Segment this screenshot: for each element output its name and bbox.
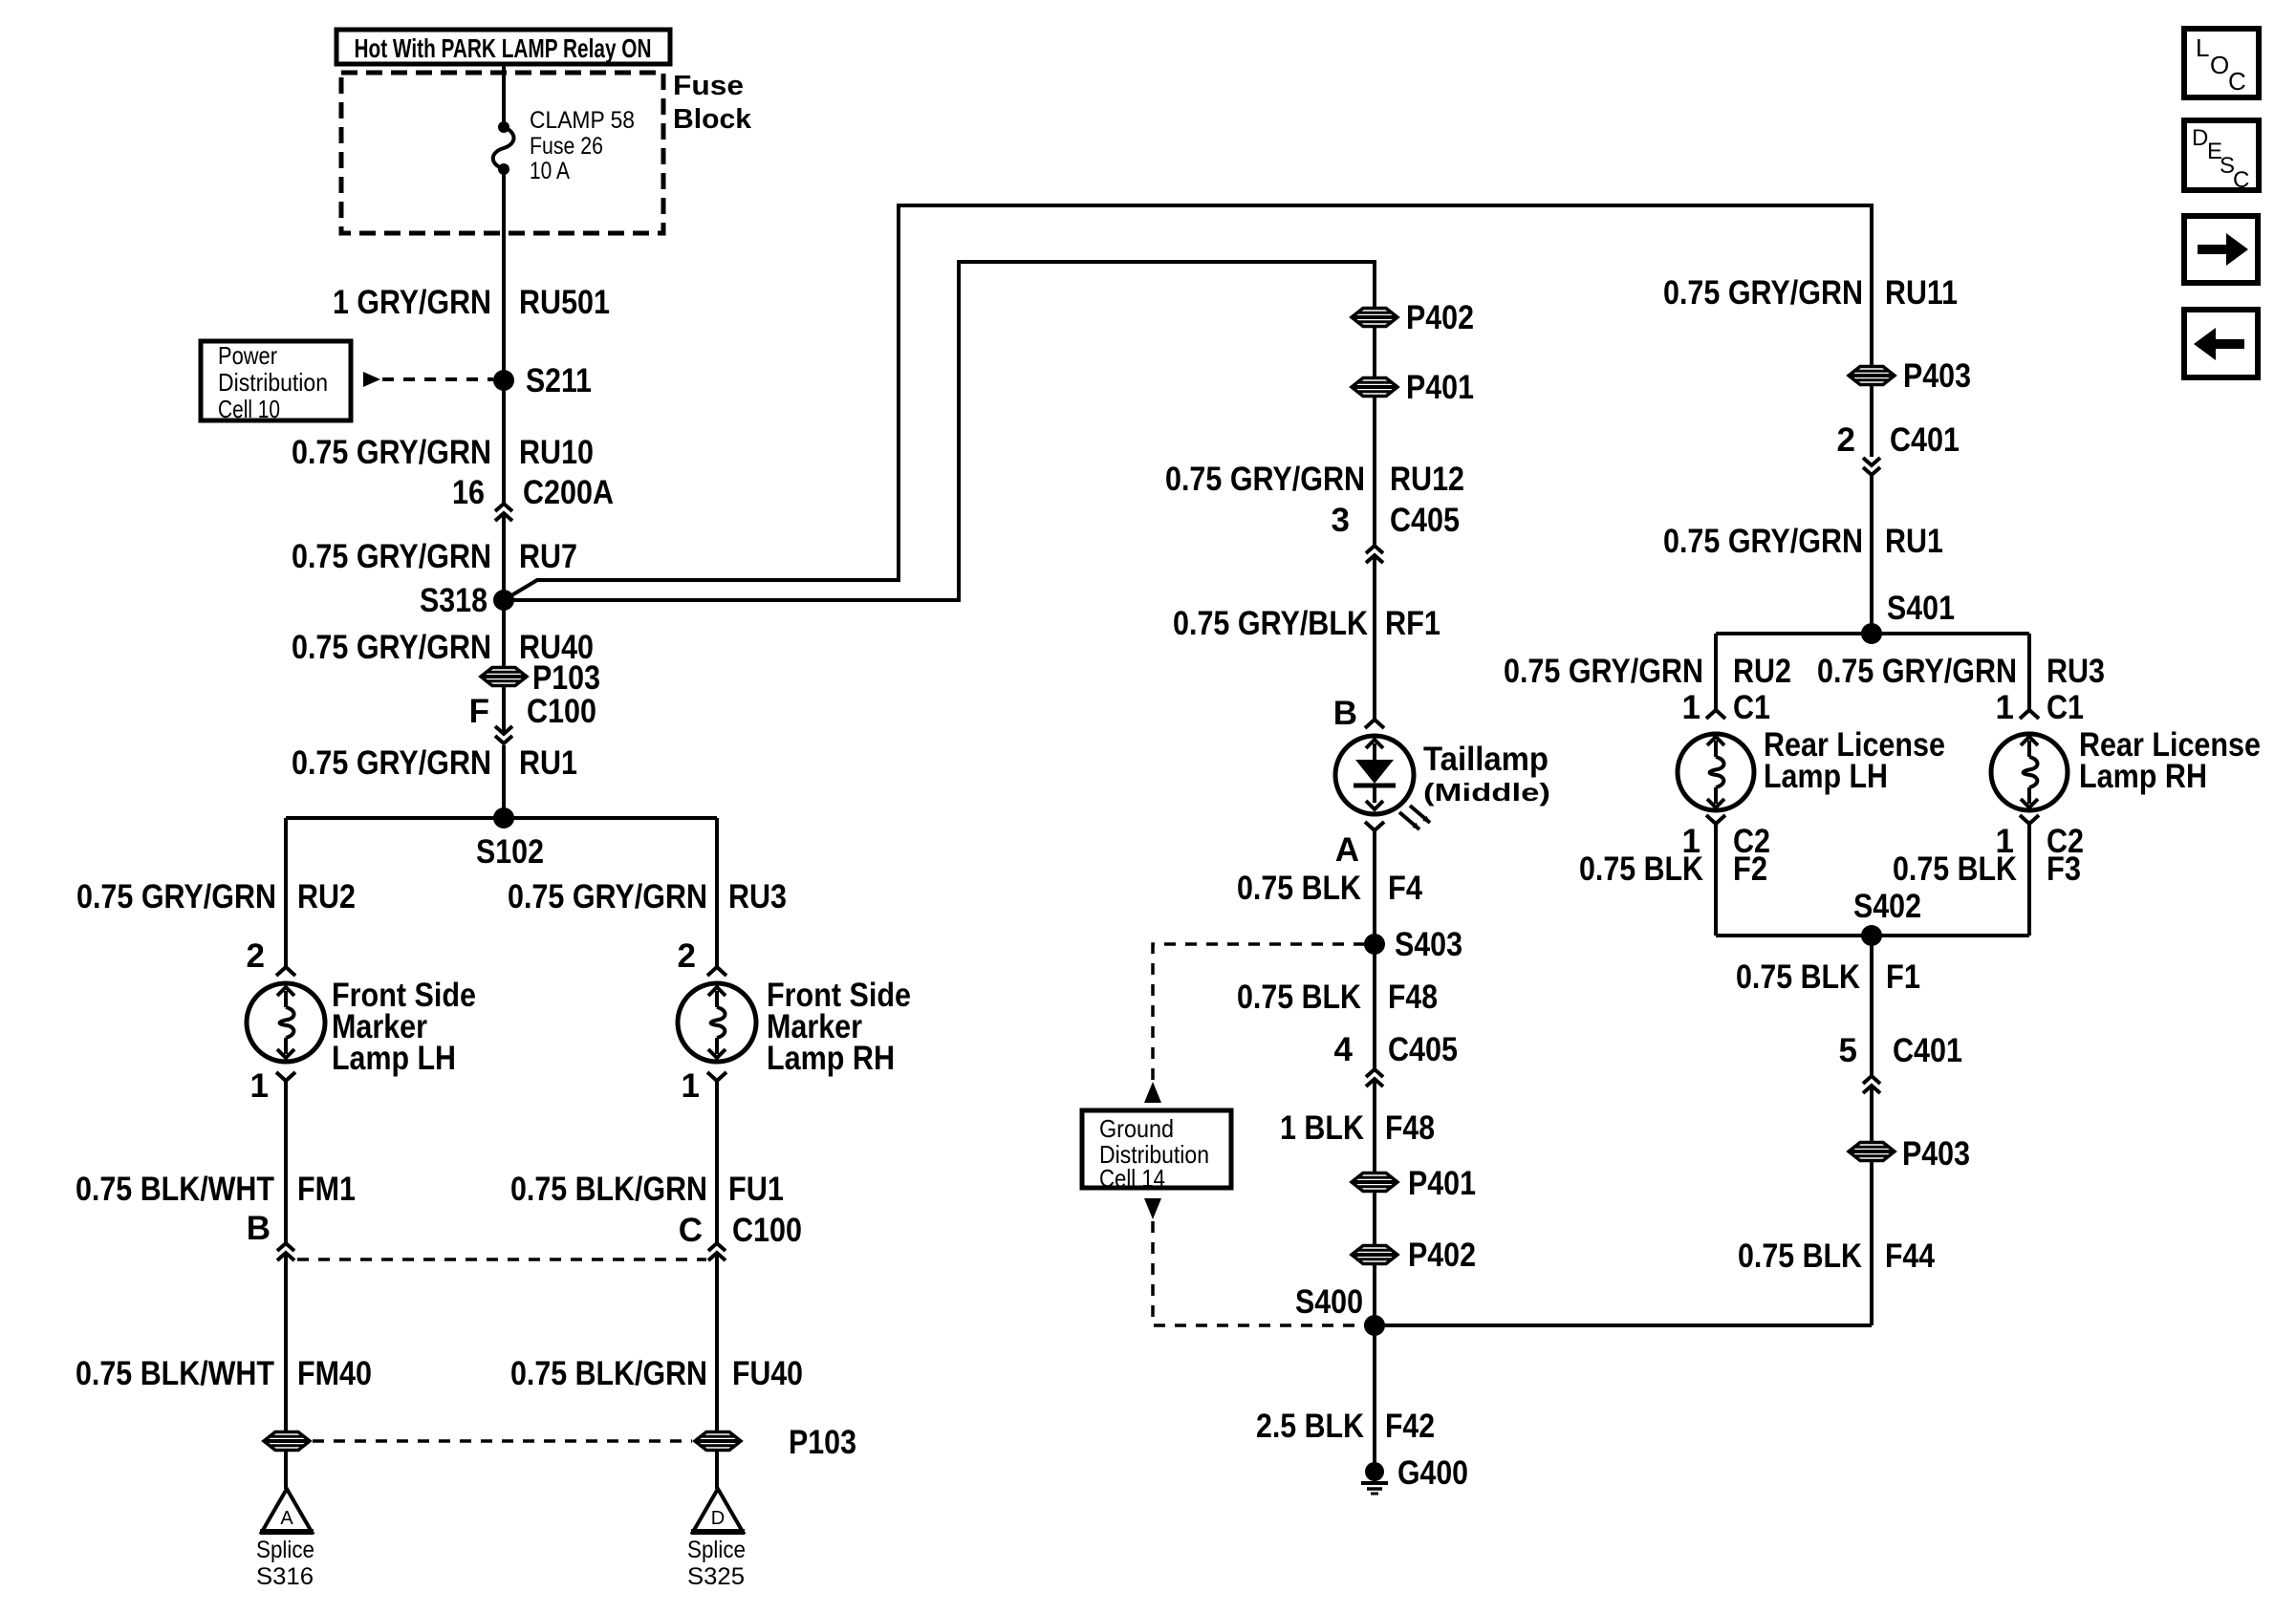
svg-text:P401: P401 — [1408, 1165, 1476, 1202]
power feed title box "Hot With PARK LAMP Relay ON" — [336, 30, 670, 64]
svg-text:RU1: RU1 — [1885, 523, 1943, 560]
svg-text:0.75 GRY/BLK: 0.75 GRY/BLK — [1173, 605, 1368, 642]
svg-text:F4: F4 — [1388, 870, 1422, 907]
svg-text:RU2: RU2 — [297, 878, 356, 915]
wire FM40 segment — [284, 1255, 288, 1489]
svg-text:S403: S403 — [1395, 926, 1462, 963]
svg-text:Lamp LH: Lamp LH — [1764, 758, 1888, 795]
svg-text:1 BLK: 1 BLK — [1280, 1109, 1364, 1147]
svg-text:C401: C401 — [1893, 1032, 1962, 1069]
legend DESC icon — [2184, 120, 2259, 190]
ground G400 — [1365, 1462, 1384, 1481]
svg-text:Lamp LH: Lamp LH — [332, 1040, 456, 1077]
svg-text:D: D — [2192, 125, 2208, 151]
svg-text:2.5 BLK: 2.5 BLK — [1256, 1408, 1364, 1445]
svg-text:A: A — [280, 1508, 293, 1529]
svg-text:RU2: RU2 — [1733, 653, 1791, 690]
wire F4 segment — [1373, 830, 1376, 944]
Rear License Lamp LH — [1678, 734, 1754, 810]
svg-text:0.75 BLK/GRN: 0.75 BLK/GRN — [510, 1355, 707, 1392]
svg-text:1: 1 — [1682, 689, 1700, 726]
svg-text:Splice: Splice — [256, 1537, 314, 1563]
splice S325 triangle D — [693, 1489, 743, 1532]
grommet P402 upper — [1352, 309, 1397, 327]
svg-text:S325: S325 — [687, 1563, 745, 1590]
wire RU3 segment to RH marker lamp — [715, 818, 719, 967]
dashed reference S403 to ground cell — [1153, 944, 1365, 1080]
wire F44 segment — [1870, 1087, 1874, 1325]
svg-text:B: B — [247, 1210, 271, 1247]
wire FU40 segment — [715, 1255, 719, 1489]
svg-text:C401: C401 — [1890, 421, 1960, 459]
svg-text:1: 1 — [682, 1067, 700, 1105]
svg-text:FU40: FU40 — [732, 1355, 803, 1392]
svg-text:P402: P402 — [1406, 299, 1474, 336]
Front Side Marker Lamp LH — [247, 983, 325, 1062]
svg-text:C100: C100 — [732, 1212, 802, 1249]
svg-text:Block: Block — [673, 104, 752, 135]
svg-text:0.75 BLK/GRN: 0.75 BLK/GRN — [510, 1171, 707, 1208]
svg-text:RU12: RU12 — [1390, 461, 1464, 498]
svg-text:C200A: C200A — [523, 474, 614, 511]
dashed grommet tie line P103 — [313, 1439, 692, 1443]
svg-text:Taillamp: Taillamp — [1423, 741, 1549, 778]
svg-text:10 A: 10 A — [530, 158, 570, 184]
svg-text:0.75 GRY/GRN: 0.75 GRY/GRN — [1663, 523, 1863, 560]
svg-text:0.75 BLK: 0.75 BLK — [1738, 1237, 1862, 1275]
wire from relay box into fuse block — [502, 64, 506, 127]
svg-text:F48: F48 — [1385, 1109, 1435, 1147]
svg-text:C405: C405 — [1388, 1031, 1458, 1068]
svg-text:RU10: RU10 — [519, 434, 594, 471]
wire RU2 segment to LH license lamp — [1714, 634, 1718, 710]
svg-text:RU3: RU3 — [728, 878, 787, 915]
wire RU1 segment — [502, 745, 506, 818]
svg-text:0.75 GRY/GRN: 0.75 GRY/GRN — [292, 629, 491, 666]
svg-text:0.75 GRY/GRN: 0.75 GRY/GRN — [1663, 274, 1863, 312]
svg-text:0.75 BLK/WHT: 0.75 BLK/WHT — [76, 1355, 274, 1392]
svg-text:Fuse 26: Fuse 26 — [530, 133, 603, 160]
svg-text:1: 1 — [250, 1067, 269, 1105]
svg-text:S402: S402 — [1853, 888, 1921, 925]
svg-text:Splice: Splice — [687, 1537, 746, 1563]
svg-text:FU1: FU1 — [728, 1171, 784, 1208]
wire RU7 segment — [502, 515, 506, 599]
svg-text:0.75 GRY/GRN: 0.75 GRY/GRN — [76, 878, 276, 915]
svg-text:2: 2 — [678, 937, 696, 975]
svg-text:0.75 GRY/GRN: 0.75 GRY/GRN — [292, 744, 491, 782]
svg-text:S211: S211 — [526, 362, 592, 399]
grommet P403 upper — [1849, 367, 1895, 385]
svg-text:O: O — [2210, 51, 2229, 79]
wire F2 segment — [1714, 824, 1718, 936]
svg-text:Fuse: Fuse — [673, 71, 744, 101]
svg-text:Lamp RH: Lamp RH — [767, 1040, 895, 1077]
taillamp light rays — [1399, 812, 1419, 829]
svg-text:0.75 GRY/GRN: 0.75 GRY/GRN — [292, 538, 491, 575]
svg-text:RF1: RF1 — [1385, 605, 1440, 642]
fuse CLAMP 58 Fuse 26 10 A — [498, 121, 509, 133]
wire RU1 segment right — [1870, 475, 1874, 634]
svg-text:RU11: RU11 — [1885, 274, 1958, 312]
grommet P401 lower — [1352, 1173, 1397, 1192]
wire RF1 segment — [1373, 557, 1376, 720]
reference arrow down — [1144, 1198, 1161, 1219]
svg-text:P403: P403 — [1903, 357, 1971, 395]
dashed connector C100 tie line — [297, 1258, 706, 1261]
wire RU40 segment — [502, 600, 506, 732]
svg-text:0.75 BLK/WHT: 0.75 BLK/WHT — [76, 1171, 274, 1208]
dashed reference arrow to S211 — [363, 372, 380, 387]
svg-text:P402: P402 — [1408, 1237, 1476, 1274]
wire RU3 segment to RH license lamp — [2027, 634, 2031, 710]
svg-text:Power: Power — [218, 341, 277, 370]
svg-text:D: D — [711, 1508, 725, 1529]
svg-text:CLAMP 58: CLAMP 58 — [530, 107, 635, 134]
svg-text:3: 3 — [1332, 502, 1350, 539]
fuse block dashed outline — [341, 73, 663, 233]
Rear License Lamp RH — [1991, 734, 2068, 810]
Taillamp (Middle) — [1335, 736, 1414, 814]
svg-text:G400: G400 — [1397, 1454, 1468, 1492]
svg-text:C: C — [2233, 167, 2249, 193]
svg-text:C405: C405 — [1390, 502, 1460, 539]
svg-text:C: C — [679, 1212, 703, 1249]
svg-text:0.75 BLK: 0.75 BLK — [1237, 979, 1361, 1016]
svg-text:4: 4 — [1334, 1031, 1354, 1068]
svg-text:S401: S401 — [1887, 590, 1955, 627]
svg-text:F3: F3 — [2047, 850, 2081, 888]
grommet P401 upper — [1352, 378, 1397, 397]
grommet P402 lower — [1352, 1246, 1397, 1264]
svg-text:2: 2 — [1837, 421, 1855, 459]
splice node S102 — [286, 816, 717, 820]
svg-text:FM40: FM40 — [297, 1355, 372, 1392]
svg-text:S316: S316 — [256, 1563, 314, 1590]
legend forward arrow icon — [2184, 216, 2258, 283]
svg-text:16: 16 — [452, 474, 485, 511]
wire FM1 segment — [284, 1081, 288, 1243]
splice node S211 — [493, 370, 514, 391]
splice node S403 — [1364, 934, 1385, 955]
svg-text:0.75 GRY/GRN: 0.75 GRY/GRN — [1165, 461, 1365, 498]
svg-text:C1: C1 — [1733, 689, 1770, 726]
svg-text:F: F — [469, 693, 489, 730]
wire S400 to rear lamp return — [1375, 1323, 1872, 1327]
svg-text:F1: F1 — [1886, 958, 1920, 996]
wire 1 BLK F48 segment — [1373, 1081, 1376, 1325]
svg-text:Cell 14: Cell 14 — [1099, 1164, 1165, 1193]
svg-text:RU501: RU501 — [519, 284, 610, 321]
svg-text:S400: S400 — [1295, 1283, 1363, 1321]
svg-text:B: B — [1333, 695, 1357, 732]
svg-text:Hot With PARK LAMP Relay ON: Hot With PARK LAMP Relay ON — [355, 33, 652, 63]
svg-text:Lamp RH: Lamp RH — [2079, 758, 2207, 795]
wire FU1 segment — [715, 1081, 719, 1243]
svg-text:5: 5 — [1839, 1032, 1857, 1069]
svg-text:0.75 BLK: 0.75 BLK — [1736, 958, 1860, 996]
grommet P103 RH — [695, 1432, 741, 1451]
svg-text:S318: S318 — [420, 582, 487, 619]
svg-text:0.75 GRY/GRN: 0.75 GRY/GRN — [1504, 653, 1703, 690]
svg-text:0.75 GRY/GRN: 0.75 GRY/GRN — [508, 878, 707, 915]
svg-text:S102: S102 — [476, 833, 544, 871]
dashed reference ground cell to S400 — [1153, 1221, 1365, 1325]
svg-text:1 GRY/GRN: 1 GRY/GRN — [333, 284, 491, 321]
wire F3 segment — [2027, 824, 2031, 936]
grommet P103 — [481, 668, 527, 686]
wire from S318 to right column (upper run) — [504, 205, 1872, 600]
svg-text:FM1: FM1 — [297, 1171, 356, 1208]
svg-text:RU7: RU7 — [519, 538, 577, 575]
svg-text:Ground: Ground — [1099, 1114, 1174, 1143]
svg-text:P403: P403 — [1902, 1135, 1970, 1173]
svg-text:C100: C100 — [527, 693, 596, 730]
svg-text:Cell 10: Cell 10 — [218, 395, 280, 423]
reference arrow up — [1144, 1082, 1161, 1103]
Front Side Marker Lamp RH — [678, 983, 756, 1062]
wire F1 segment — [1870, 936, 1874, 1076]
svg-text:1: 1 — [1996, 689, 2014, 726]
svg-text:A: A — [1335, 831, 1359, 869]
svg-text:0.75 BLK: 0.75 BLK — [1893, 850, 2017, 888]
svg-text:0.75 GRY/GRN: 0.75 GRY/GRN — [1817, 653, 2017, 690]
svg-text:0.75 GRY/GRN: 0.75 GRY/GRN — [292, 434, 491, 471]
wire F42 ground lead — [1373, 1325, 1376, 1463]
svg-text:P103: P103 — [532, 659, 600, 697]
svg-text:C: C — [2228, 67, 2246, 96]
svg-text:RU1: RU1 — [519, 744, 577, 782]
legend LOC icon — [2184, 29, 2259, 97]
svg-text:Distribution: Distribution — [218, 368, 328, 397]
svg-text:L: L — [2196, 33, 2209, 62]
splice S316 triangle A — [262, 1489, 312, 1532]
wire F48 segment — [1373, 944, 1376, 1069]
wire RU501 fuse output down to C200A — [502, 169, 506, 504]
svg-text:(Middle): (Middle) — [1423, 778, 1550, 807]
svg-text:0.75 BLK: 0.75 BLK — [1237, 870, 1361, 907]
svg-text:P103: P103 — [789, 1424, 856, 1461]
svg-text:P401: P401 — [1406, 369, 1474, 406]
svg-text:F48: F48 — [1388, 979, 1438, 1016]
Ground Distribution Cell 14 reference box — [1082, 1110, 1231, 1188]
svg-text:F2: F2 — [1733, 850, 1767, 888]
svg-text:0.75 BLK: 0.75 BLK — [1579, 850, 1703, 888]
svg-text:C1: C1 — [2047, 689, 2084, 726]
wire from S318 to middle column (lower run) — [504, 262, 1375, 600]
grommet P103 LH — [264, 1432, 310, 1451]
wire RU2 segment to LH marker lamp — [284, 818, 288, 967]
svg-text:RU3: RU3 — [2047, 653, 2105, 690]
grommet P403 lower — [1849, 1143, 1895, 1161]
svg-text:F44: F44 — [1885, 1237, 1935, 1275]
Power Distribution Cell 10 reference box — [201, 341, 351, 420]
svg-text:F42: F42 — [1385, 1408, 1435, 1445]
svg-text:2: 2 — [247, 937, 265, 975]
legend back arrow icon — [2184, 310, 2258, 377]
